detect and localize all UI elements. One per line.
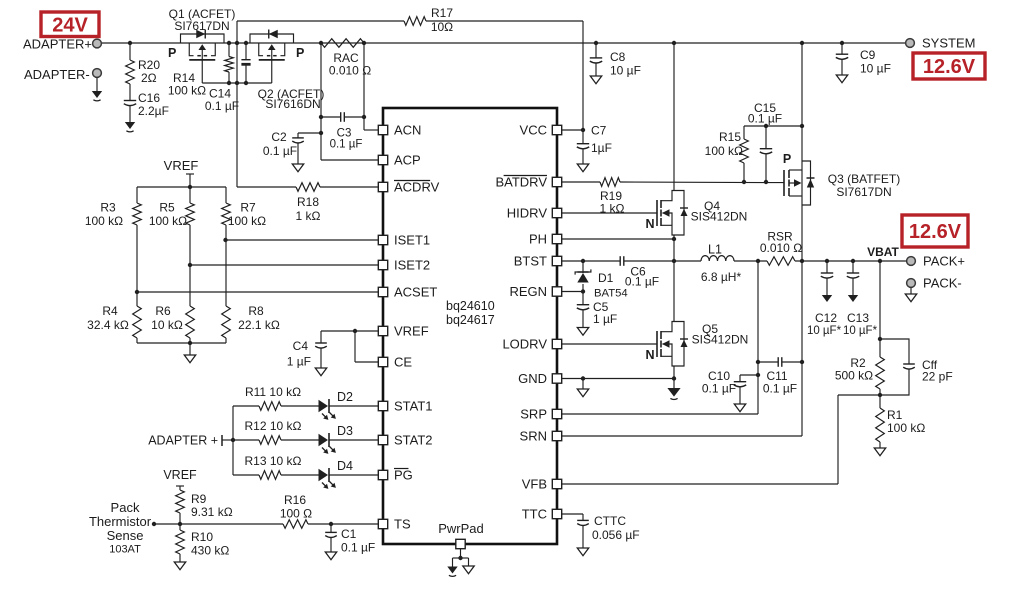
svg-text:R4: R4 (102, 304, 118, 318)
svg-text:0.1 µF: 0.1 µF (625, 275, 659, 289)
svg-text:C4: C4 (293, 339, 309, 353)
svg-text:ISET2: ISET2 (394, 258, 430, 273)
svg-text:N: N (645, 217, 654, 231)
svg-text:R8: R8 (248, 304, 264, 318)
svg-text:10 kΩ: 10 kΩ (151, 318, 183, 332)
svg-text:CE: CE (394, 355, 412, 370)
svg-text:VREF: VREF (164, 158, 199, 173)
svg-text:100 kΩ: 100 kΩ (887, 421, 925, 435)
svg-text:SIS412DN: SIS412DN (692, 333, 749, 347)
svg-text:100 kΩ: 100 kΩ (228, 214, 266, 228)
svg-text:100 kΩ: 100 kΩ (705, 144, 743, 158)
svg-text:CTTC: CTTC (594, 514, 626, 528)
svg-text:2Ω: 2Ω (141, 71, 157, 85)
svg-text:ISET1: ISET1 (394, 233, 430, 248)
svg-text:C13: C13 (847, 311, 869, 325)
svg-text:0.1 µF: 0.1 µF (763, 382, 797, 396)
svg-text:1 µF: 1 µF (287, 355, 311, 369)
svg-text:430 kΩ: 430 kΩ (191, 544, 229, 558)
svg-text:VCC: VCC (520, 123, 547, 138)
svg-text:R6: R6 (155, 304, 171, 318)
svg-text:10 µF: 10 µF (860, 62, 891, 76)
svg-text:ADAPTER +: ADAPTER + (148, 434, 218, 448)
svg-text:GND: GND (518, 371, 547, 386)
svg-text:R10: R10 (191, 530, 213, 544)
svg-text:R15: R15 (719, 130, 741, 144)
svg-text:R13 10 kΩ: R13 10 kΩ (245, 454, 302, 468)
svg-text:L1: L1 (708, 243, 722, 257)
svg-text:R5: R5 (159, 201, 175, 215)
svg-text:C1: C1 (341, 527, 357, 541)
svg-text:SI7617DN: SI7617DN (174, 19, 229, 33)
svg-text:SRP: SRP (520, 407, 547, 422)
svg-text:ACSET: ACSET (394, 285, 437, 300)
svg-text:VBAT: VBAT (867, 245, 899, 259)
svg-text:P: P (168, 46, 176, 60)
svg-text:bq24610: bq24610 (446, 299, 495, 313)
svg-text:R17: R17 (431, 6, 453, 20)
svg-text:VREF: VREF (394, 324, 429, 339)
svg-text:BTST: BTST (514, 254, 547, 269)
svg-text:10 µF: 10 µF (610, 64, 641, 78)
svg-text:24V: 24V (52, 14, 88, 36)
svg-text:Q3 (BATFET): Q3 (BATFET) (828, 172, 900, 186)
svg-text:0.1 µF: 0.1 µF (748, 112, 782, 126)
svg-text:PACK-: PACK- (923, 276, 962, 291)
svg-text:LODRV: LODRV (502, 337, 547, 352)
svg-text:TTC: TTC (522, 507, 547, 522)
svg-text:22.1 kΩ: 22.1 kΩ (238, 318, 280, 332)
svg-text:SIS412DN: SIS412DN (691, 210, 748, 224)
svg-text:32.4 kΩ: 32.4 kΩ (87, 318, 129, 332)
svg-text:Pack: Pack (111, 500, 140, 515)
svg-text:STAT1: STAT1 (394, 399, 433, 414)
svg-text:R1: R1 (887, 408, 903, 422)
svg-text:12.6V: 12.6V (923, 56, 976, 78)
svg-text:100 kΩ: 100 kΩ (168, 84, 206, 98)
svg-text:C8: C8 (610, 50, 626, 64)
svg-text:Sense: Sense (107, 528, 144, 543)
svg-text:Thermistor: Thermistor (89, 514, 152, 529)
svg-text:D1: D1 (598, 271, 614, 285)
svg-text:100 kΩ: 100 kΩ (149, 214, 187, 228)
svg-text:D2: D2 (337, 390, 353, 404)
svg-text:PwrPad: PwrPad (438, 521, 484, 536)
svg-text:C12: C12 (815, 311, 837, 325)
svg-text:22 pF: 22 pF (922, 370, 953, 384)
svg-text:R11 10 kΩ: R11 10 kΩ (245, 385, 301, 399)
svg-text:0.1 µF: 0.1 µF (702, 382, 736, 396)
svg-text:PH: PH (529, 232, 547, 247)
svg-text:R7: R7 (240, 201, 256, 215)
svg-text:2.2µF: 2.2µF (138, 104, 169, 118)
svg-text:10 µF*: 10 µF* (807, 325, 842, 337)
svg-text:VREF: VREF (163, 468, 197, 482)
svg-text:C2: C2 (271, 130, 287, 144)
svg-text:VFB: VFB (522, 477, 547, 492)
svg-text:R3: R3 (100, 201, 116, 215)
svg-text:PACK+: PACK+ (923, 254, 965, 269)
svg-text:ACP: ACP (394, 153, 421, 168)
svg-text:ACDRV: ACDRV (394, 180, 440, 195)
svg-text:0.056 µF: 0.056 µF (592, 528, 640, 542)
svg-text:ADAPTER+: ADAPTER+ (23, 37, 92, 52)
svg-text:1 kΩ: 1 kΩ (600, 202, 625, 216)
svg-text:12.6V: 12.6V (909, 221, 962, 243)
svg-text:0.1 µF: 0.1 µF (205, 99, 239, 113)
svg-text:C9: C9 (860, 48, 876, 62)
svg-text:SRN: SRN (520, 429, 547, 444)
svg-text:P: P (296, 46, 304, 60)
svg-text:C16: C16 (138, 91, 160, 105)
svg-text:0.010 Ω: 0.010 Ω (329, 64, 371, 78)
svg-text:SI7616DN: SI7616DN (265, 97, 320, 111)
svg-text:P: P (783, 152, 791, 166)
svg-text:0.010 Ω: 0.010 Ω (760, 241, 802, 255)
svg-text:TS: TS (394, 517, 411, 532)
svg-text:N: N (645, 348, 654, 362)
svg-text:PG: PG (394, 468, 413, 483)
svg-text:SI7617DN: SI7617DN (836, 185, 891, 199)
svg-text:R12 10 kΩ: R12 10 kΩ (245, 419, 302, 433)
svg-text:9.31 kΩ: 9.31 kΩ (191, 505, 233, 519)
svg-text:R18: R18 (297, 195, 319, 209)
svg-text:SYSTEM: SYSTEM (922, 36, 975, 51)
svg-text:0.1 µF: 0.1 µF (341, 541, 375, 555)
svg-text:R20: R20 (138, 58, 160, 72)
svg-text:1 µF: 1 µF (593, 312, 617, 326)
svg-text:1µF: 1µF (591, 141, 612, 155)
svg-text:10 µF*: 10 µF* (843, 325, 878, 337)
svg-text:C7: C7 (591, 124, 607, 138)
svg-text:ACN: ACN (394, 123, 421, 138)
svg-text:100 kΩ: 100 kΩ (85, 214, 123, 228)
svg-text:D3: D3 (337, 424, 353, 438)
svg-text:BAT54: BAT54 (594, 288, 628, 300)
svg-text:HIDRV: HIDRV (507, 206, 548, 221)
svg-text:REGN: REGN (509, 284, 547, 299)
svg-text:500 kΩ: 500 kΩ (835, 369, 873, 383)
svg-text:100 Ω: 100 Ω (280, 507, 312, 521)
svg-text:0.1 µF: 0.1 µF (330, 139, 363, 151)
svg-text:R16: R16 (284, 493, 306, 507)
svg-text:ADAPTER-: ADAPTER- (24, 67, 90, 82)
svg-text:R9: R9 (191, 492, 207, 506)
svg-text:BATDRV: BATDRV (495, 175, 547, 190)
svg-text:bq24617: bq24617 (446, 313, 495, 327)
svg-text:0.1 µF: 0.1 µF (263, 144, 297, 158)
svg-text:STAT2: STAT2 (394, 433, 433, 448)
svg-text:10Ω: 10Ω (431, 20, 453, 34)
svg-text:D4: D4 (337, 459, 353, 473)
svg-text:6.8 µH*: 6.8 µH* (701, 270, 742, 284)
svg-text:1 kΩ: 1 kΩ (296, 209, 321, 223)
svg-text:103AT: 103AT (109, 544, 141, 556)
